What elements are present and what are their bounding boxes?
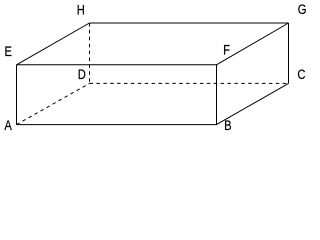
wire hidden edge D-C (dashed) (90, 82, 289, 84)
wire edge E-H (top left depth) (17, 23, 90, 65)
svg-text:G: G (298, 2, 307, 17)
svg-text:A: A (4, 118, 12, 133)
wire edge H-G (back top) (90, 22, 289, 24)
svg-text:B: B (224, 118, 231, 133)
svg-text:D: D (78, 67, 86, 82)
wire edge F-G (top right depth) (217, 23, 289, 65)
wire edge B-F (front right vertical) (216, 65, 218, 125)
wire hidden edge A-D (dashed) (17, 83, 90, 124)
svg-text:H: H (77, 2, 85, 17)
wire edge B-C (bottom right depth) (217, 83, 289, 124)
wire hidden edge H-D (dashed) (89, 23, 91, 83)
wire edge A-B (front bottom) (17, 124, 217, 126)
svg-text:C: C (297, 67, 305, 82)
wire edge G-C (back right vertical) (288, 23, 290, 83)
svg-text:E: E (5, 44, 12, 59)
svg-text:F: F (223, 42, 230, 57)
wire edge A-E (front left vertical) (16, 65, 18, 125)
wire edge E-F (front top) (17, 64, 217, 66)
